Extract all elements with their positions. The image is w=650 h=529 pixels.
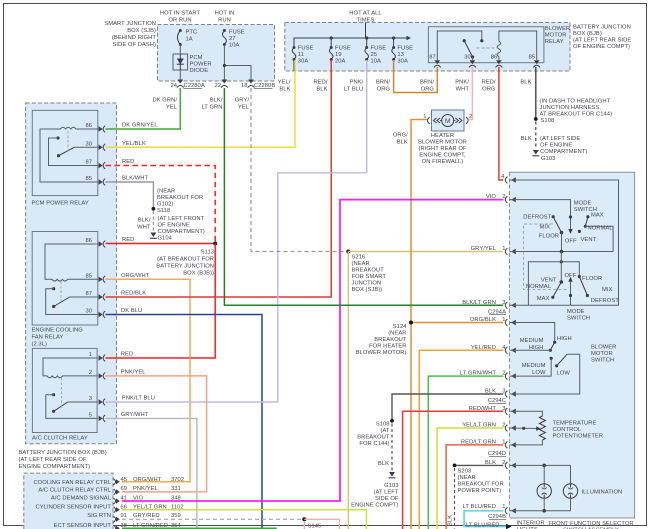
mode switch 2 labels	[526, 273, 619, 322]
svg-text:10A: 10A	[371, 59, 382, 65]
svg-text:S113: S113	[201, 250, 214, 256]
svg-text:MEDIUM: MEDIUM	[522, 363, 546, 369]
svg-text:ENGINE COMPT,: ENGINE COMPT,	[419, 153, 466, 159]
svg-text:FAN RELAY: FAN RELAY	[32, 335, 64, 341]
svg-text:BLK: BLK	[448, 515, 454, 526]
wire BLK/WHT dashed drop to G104	[137, 211, 153, 232]
svg-text:(AT LEFT SIDE: (AT LEFT SIDE	[540, 136, 580, 142]
svg-text:COMPARTMENT): COMPARTMENT)	[158, 229, 205, 235]
circuit breaker PTC 1A	[177, 29, 197, 46]
svg-text:BREAKOUT: BREAKOUT	[352, 268, 385, 274]
svg-text:30: 30	[464, 55, 471, 61]
fuse 19 20A	[329, 46, 350, 72]
svg-text:BATTERY JUNCTION BOX (BJB): BATTERY JUNCTION BOX (BJB)	[19, 450, 107, 456]
svg-text:BREAKOUT FOR: BREAKOUT FOR	[458, 482, 504, 488]
svg-text:3: 3	[502, 389, 505, 395]
svg-text:RUN: RUN	[218, 18, 231, 24]
splice S216	[346, 250, 386, 294]
illumination lamps	[510, 464, 623, 513]
connector pin 22	[214, 80, 227, 90]
svg-text:69: 69	[121, 486, 128, 492]
svg-text:86: 86	[491, 55, 498, 61]
relay A/C clutch relay box	[32, 348, 97, 441]
svg-text:ORG/WHT: ORG/WHT	[133, 477, 162, 483]
relay PCM power relay box	[32, 110, 98, 206]
svg-text:ORG: ORG	[421, 87, 435, 93]
svg-text:GRY/: GRY/	[235, 98, 250, 104]
svg-text:INTERIOR: INTERIOR	[517, 521, 545, 527]
svg-text:BLK/WHT: BLK/WHT	[122, 176, 149, 182]
svg-text:FUSE: FUSE	[397, 46, 413, 52]
wire GRY/RED row 91: PCM to S145	[122, 517, 339, 529]
wire GRY/YEL: S216 to selector pin 1	[348, 251, 503, 253]
svg-text:SIDE OF DASH): SIDE OF DASH)	[113, 42, 157, 48]
svg-text:86: 86	[85, 238, 92, 244]
svg-text:PNK/LT BLU: PNK/LT BLU	[122, 396, 155, 402]
wire LT GRN/WHT: selector pin 2 to bottom	[428, 376, 503, 529]
svg-text:3702: 3702	[171, 477, 184, 483]
wire PNK/LT BLU: fuse 25 to A/C relay pin 3	[106, 60, 367, 402]
svg-text:DK BLU: DK BLU	[121, 308, 142, 314]
svg-text:S118: S118	[157, 208, 170, 214]
svg-text:ECT SENSOR INPUT: ECT SENSOR INPUT	[54, 523, 112, 529]
svg-text:OFF: OFF	[565, 273, 577, 279]
svg-text:BLK: BLK	[397, 140, 408, 146]
svg-text:POWER: POWER	[190, 62, 212, 68]
label SMART JUNCTION BOX	[104, 21, 156, 48]
svg-text:2: 2	[502, 194, 505, 200]
svg-text:POTENTIOMETER: POTENTIOMETER	[553, 433, 604, 439]
relay switch contact (87 side)	[437, 31, 483, 60]
svg-text:41: 41	[121, 495, 128, 501]
svg-text:VENT: VENT	[541, 278, 557, 284]
wire BLK: blower relay pin 85 to S108/G103	[521, 67, 612, 162]
svg-text:PNK/: PNK/	[350, 80, 364, 86]
motor pin 2 connector	[466, 114, 472, 124]
mode switch 1 contacts and arm	[552, 215, 613, 251]
svg-text:AT BREAKOUT FOR C144): AT BREAKOUT FOR C144)	[540, 112, 613, 118]
svg-text:PNK/YEL: PNK/YEL	[133, 486, 159, 492]
svg-text:BLK: BLK	[485, 460, 496, 466]
svg-text:2: 2	[89, 370, 92, 376]
svg-text:BLOWER MOTOR: BLOWER MOTOR	[418, 140, 467, 146]
svg-text:2: 2	[502, 423, 505, 429]
selector pin 1 RED/LT GRN + C294D	[461, 439, 516, 457]
selector pin 2 VIO	[486, 194, 516, 203]
relay pin connectors (bottom edge)	[434, 60, 540, 67]
svg-text:BLOWER: BLOWER	[545, 26, 570, 32]
svg-text:3: 3	[502, 300, 505, 306]
svg-text:30: 30	[85, 309, 92, 315]
svg-text:20A: 20A	[335, 59, 346, 65]
svg-text:BREAKOUT: BREAKOUT	[374, 337, 407, 343]
svg-text:YEL/LT GRN: YEL/LT GRN	[462, 423, 496, 429]
selector pin 3 RED/WHT	[469, 406, 516, 415]
svg-text:G103: G103	[541, 156, 555, 162]
fuse 27 10A	[222, 29, 244, 49]
svg-text:BATTERY JUNCTION: BATTERY JUNCTION	[573, 25, 631, 31]
wire LT BLU/RED: selector pin 1 to interior lights	[464, 511, 545, 529]
svg-text:YEL/: YEL/	[278, 80, 291, 86]
svg-text:331: 331	[171, 486, 181, 492]
wire RED: S113 down to A/C relay pin 1	[106, 244, 216, 359]
svg-text:YEL: YEL	[166, 105, 178, 111]
fuse 11 30A	[292, 46, 313, 72]
svg-text:RED/WHT: RED/WHT	[469, 406, 497, 412]
wire GRY/YEL: SJB pin 18 dashed to S216	[251, 88, 348, 252]
svg-text:NORMAL: NORMAL	[588, 226, 614, 232]
selector pin 1 ORG/BLK	[470, 317, 516, 326]
wire feed bus from pin 4	[510, 180, 619, 305]
relay fan coil 86-85	[45, 244, 98, 281]
svg-text:JUNCTION: JUNCTION	[352, 281, 382, 287]
label BATTERY JUNCTION BOX (top right)	[573, 25, 631, 51]
front function selector switch assembly box	[510, 172, 635, 518]
svg-text:BATTERY JUNCTION: BATTERY JUNCTION	[156, 264, 214, 270]
svg-text:POWER POINT): POWER POINT)	[458, 488, 502, 494]
wire LT GRN/RED row 38	[122, 527, 276, 529]
splice S113	[156, 242, 217, 277]
svg-text:2: 2	[502, 371, 505, 377]
svg-text:(AT BREAKOUT FOR: (AT BREAKOUT FOR	[157, 257, 214, 263]
svg-text:MAX: MAX	[591, 213, 604, 219]
node HOT IN RUN	[215, 11, 235, 24]
selector pin 4 YEL/RED	[471, 345, 516, 354]
svg-text:45: 45	[121, 477, 128, 483]
mode switch 1 wiper feed (VIO)	[510, 200, 573, 234]
selector pin 3 BLK + C294C	[485, 389, 516, 405]
wire RED/LT GRN: selector pin 1 to bottom	[446, 445, 503, 529]
wire BLK/LT GRN inside box (pin 3 bus)	[510, 304, 619, 306]
wire DK GRN/YEL: SJB pin 24 to PCM relay pin 86	[106, 88, 181, 129]
svg-text:BRN/: BRN/	[420, 80, 434, 86]
wire ORG/BLK: motor pin 1 to S124, selector pin 1, and bottom	[393, 120, 504, 529]
relay pin number labels	[429, 55, 535, 61]
svg-text:1: 1	[502, 504, 505, 510]
relay blower motor relay box	[428, 27, 544, 63]
svg-text:85: 85	[529, 55, 536, 61]
motor pin 1 connector	[423, 114, 429, 124]
svg-text:GRY/RED: GRY/RED	[133, 513, 160, 519]
svg-text:25: 25	[371, 52, 378, 58]
motor heater blower motor	[432, 110, 465, 131]
svg-text:HEATER: HEATER	[431, 133, 454, 139]
svg-text:BLK: BLK	[521, 136, 532, 142]
svg-text:ON FIREWALL): ON FIREWALL)	[422, 159, 464, 165]
svg-text:PNK/: PNK/	[455, 80, 469, 86]
svg-text:RED: RED	[122, 237, 134, 243]
svg-text:ILLUMINATION: ILLUMINATION	[582, 490, 623, 496]
svg-text:ENGINE COMPARTMENT): ENGINE COMPARTMENT)	[19, 464, 91, 470]
svg-text:YEL: YEL	[238, 105, 250, 111]
relay A/C pin labels 1 2 3 5	[89, 352, 92, 418]
svg-text:MEDIUM: MEDIUM	[520, 338, 544, 344]
mode switch 1 labels	[523, 201, 613, 245]
connector pin 24 C2280A	[170, 80, 204, 90]
label HEATER BLOWER MOTOR	[418, 133, 467, 165]
svg-text:RED/: RED/	[313, 80, 327, 86]
svg-text:(NEAR: (NEAR	[388, 331, 406, 337]
wire PNK/YEL: A/C relay pin 2 to PCM pin 69	[106, 369, 207, 492]
svg-text:11: 11	[298, 52, 304, 58]
svg-text:5: 5	[89, 412, 92, 418]
svg-text:ORG: ORG	[482, 87, 496, 93]
label BATTERY JUNCTION BOX (left bottom)	[19, 450, 107, 470]
svg-text:MOTOR: MOTOR	[591, 351, 613, 357]
svg-text:19: 19	[335, 52, 342, 58]
svg-text:RELAY: RELAY	[545, 39, 564, 45]
svg-text:DEFROST: DEFROST	[523, 215, 551, 221]
wire RED: fan relay pin 86 to S113	[106, 237, 216, 244]
relay PCM coil 86-85	[40, 127, 98, 182]
svg-text:S203: S203	[458, 469, 472, 475]
svg-text:S124: S124	[393, 324, 407, 330]
svg-text:GRY/WHT: GRY/WHT	[121, 412, 149, 418]
svg-text:BOX (SJB): BOX (SJB)	[127, 28, 156, 34]
selector pin 2 LT GRN/WHT	[460, 371, 516, 380]
svg-text:FLOOR: FLOOR	[582, 276, 602, 282]
svg-text:30: 30	[85, 141, 92, 147]
selector pin 4 (RED/ORG in)	[501, 174, 516, 184]
relay coil (86-85)	[497, 31, 537, 60]
svg-text:BLK: BLK	[485, 389, 496, 395]
svg-text:22: 22	[214, 83, 221, 89]
svg-text:LOW: LOW	[557, 370, 571, 376]
svg-text:LT GRN: LT GRN	[201, 105, 222, 111]
svg-text:S108: S108	[376, 422, 390, 428]
svg-text:COOLING FAN RELAY CTRL: COOLING FAN RELAY CTRL	[33, 480, 111, 486]
svg-text:SIDE OF: SIDE OF	[375, 496, 399, 502]
smart junction box (SJB) dashed box	[158, 25, 275, 82]
wire BLK: selector pin 3 to S108(2)/G103(2)	[351, 394, 503, 509]
relay PCM pin labels 86 30 87 85	[85, 123, 92, 182]
svg-text:ORG/BLK: ORG/BLK	[470, 317, 496, 323]
mode switch linkage dashed	[524, 224, 569, 290]
svg-text:BREAKOUT FOR: BREAKOUT FOR	[157, 195, 203, 201]
wire RED/ORG: blower relay pin 86 to selector pin 4	[499, 67, 503, 180]
svg-text:85: 85	[85, 176, 92, 182]
svg-text:BLK: BLK	[316, 87, 327, 93]
svg-text:BOX (BJB): BOX (BJB)	[573, 31, 602, 37]
svg-text:MIX: MIX	[602, 287, 613, 293]
wire GRY/YEL: S216 branch down to bottom	[347, 252, 349, 529]
wire YEL/BLK: fuse 11 to PCM relay pin 30	[106, 60, 296, 147]
svg-text:ORG/: ORG/	[393, 133, 408, 139]
wire VIO: selector pin 2 to PCM pin 41	[122, 200, 503, 501]
wire BRN/ORG: fuse 13 to blower relay pin 87	[394, 60, 438, 93]
selector pin 1 LT BLU/RED + C294B	[463, 504, 516, 529]
svg-text:13: 13	[397, 52, 404, 58]
svg-text:2: 2	[502, 460, 505, 466]
relay fan pin connectors	[99, 241, 106, 318]
potentiometer temperature control	[510, 411, 604, 445]
svg-text:87: 87	[429, 55, 436, 61]
blower motor switch labels	[520, 336, 617, 376]
svg-text:1: 1	[423, 114, 426, 120]
svg-text:SIG RTN: SIG RTN	[87, 513, 111, 519]
svg-text:(NEAR: (NEAR	[157, 189, 175, 195]
svg-text:VIO: VIO	[133, 495, 144, 501]
wire YEL/RED: selector pin 4 to bottom	[419, 350, 503, 529]
wire diode to pin 24	[179, 70, 181, 80]
svg-text:A/C CLUTCH RELAY: A/C CLUTCH RELAY	[32, 436, 88, 442]
svg-text:BOX (BJB)): BOX (BJB))	[183, 271, 214, 277]
svg-text:BOX (SJB)): BOX (SJB))	[352, 287, 383, 293]
PCM row labels (left)	[33, 480, 111, 529]
svg-text:(NEAR: (NEAR	[458, 475, 476, 481]
svg-text:RED/LT GRN: RED/LT GRN	[461, 439, 496, 445]
svg-text:MIX: MIX	[540, 225, 551, 231]
svg-text:BRN/: BRN/	[376, 80, 390, 86]
wire YEL/LT GRN row 66: PCM to bottom	[122, 510, 366, 529]
svg-text:PCM: PCM	[190, 55, 203, 61]
svg-text:1: 1	[502, 439, 505, 445]
blower motor switch	[510, 323, 580, 395]
svg-text:COMPARTMENT): COMPARTMENT)	[540, 149, 587, 155]
svg-text:SWITCH: SWITCH	[591, 357, 614, 363]
svg-text:MOTOR: MOTOR	[545, 33, 567, 39]
svg-text:FOR HEATER: FOR HEATER	[369, 344, 406, 350]
svg-text:FUSE: FUSE	[229, 30, 245, 36]
selector pin 3 BLK/LT GRN + C294A	[462, 300, 516, 316]
svg-text:(2.3L): (2.3L)	[32, 342, 47, 348]
svg-text:ORG: ORG	[377, 87, 391, 93]
wire DK BLU: fan relay pin 30 down to bottom	[106, 308, 263, 529]
svg-text:A/C DEMAND SIGNAL: A/C DEMAND SIGNAL	[51, 495, 112, 501]
svg-text:FUSE: FUSE	[371, 46, 387, 52]
wire PTC to diode	[179, 45, 181, 55]
svg-text:LT BLU: LT BLU	[344, 87, 363, 93]
svg-text:1: 1	[502, 246, 505, 252]
svg-text:87: 87	[85, 160, 92, 166]
svg-text:TEMPERATURE: TEMPERATURE	[553, 420, 597, 426]
svg-text:FUSE: FUSE	[298, 46, 314, 52]
left battery junction box (BJB) dashed box (relays)	[26, 103, 117, 444]
svg-text:(NEAR: (NEAR	[352, 261, 370, 267]
svg-text:BLK: BLK	[520, 80, 531, 86]
wire BLK/WHT: PCM relay pin 85 to S118/G104	[106, 176, 154, 208]
svg-text:OF ENGINE: OF ENGINE	[158, 222, 190, 228]
ground G104	[150, 216, 205, 242]
svg-text:85: 85	[85, 273, 92, 279]
label DK GRN/YEL (under pin 24)	[152, 98, 177, 111]
relay A/C switch	[46, 378, 98, 418]
svg-text:348: 348	[171, 495, 181, 501]
svg-text:87: 87	[85, 291, 92, 297]
svg-text:FOR SMART: FOR SMART	[352, 274, 387, 280]
svg-text:PCM POWER RELAY: PCM POWER RELAY	[32, 201, 89, 207]
svg-text:VIO: VIO	[486, 194, 497, 200]
svg-text:S145: S145	[308, 524, 322, 529]
svg-text:24: 24	[170, 83, 177, 89]
svg-text:BLK/: BLK/	[210, 98, 223, 104]
svg-text:(IN DASH TO HEADLIGHT: (IN DASH TO HEADLIGHT	[540, 99, 611, 105]
svg-text:(AT: (AT	[380, 428, 389, 434]
svg-text:VENT: VENT	[581, 237, 597, 243]
wire GRY/YEL inside box (pin 1 line)	[510, 250, 614, 254]
svg-text:JUNCTION HARNESS,: JUNCTION HARNESS,	[540, 105, 602, 111]
svg-text:BLK/LT GRN: BLK/LT GRN	[462, 300, 496, 306]
svg-text:SWITCH: SWITCH	[567, 315, 590, 321]
svg-text:G104: G104	[158, 235, 173, 241]
svg-text:(AT LEFT REAR SIDE: (AT LEFT REAR SIDE	[573, 38, 631, 44]
svg-text:DEFROST: DEFROST	[591, 298, 619, 304]
selector pin 2 YEL/LT GRN	[462, 423, 516, 432]
svg-text:M: M	[445, 118, 450, 125]
svg-text:10A: 10A	[229, 43, 240, 49]
fuse 25 10A	[365, 46, 386, 72]
svg-text:HOT IN: HOT IN	[215, 11, 235, 17]
svg-text:RED/: RED/	[481, 80, 495, 86]
svg-text:G103: G103	[384, 483, 398, 489]
svg-text:OF ENGINE: OF ENGINE	[540, 143, 572, 149]
relay fan pin labels 86 85 87 30	[85, 238, 92, 315]
svg-text:NORMAL: NORMAL	[526, 284, 552, 290]
svg-text:MODE: MODE	[567, 309, 585, 315]
label BLOWER MOTOR RELAY	[545, 26, 570, 45]
node HOT IN START OR RUN	[160, 11, 201, 24]
svg-text:DK GRN/: DK GRN/	[152, 98, 177, 104]
svg-text:HOT IN START: HOT IN START	[160, 11, 201, 17]
svg-text:PNK/YEL: PNK/YEL	[121, 369, 147, 375]
svg-text:LOW: LOW	[532, 370, 546, 376]
selector pin 2 BLK	[485, 460, 516, 469]
svg-text:86: 86	[85, 123, 92, 129]
svg-text:HIGH: HIGH	[529, 345, 544, 351]
svg-text:FLOOR: FLOOR	[539, 234, 559, 240]
wire RED/BLK: fuse 19 to fan relay pin 87	[106, 60, 332, 297]
PCM row connectors	[114, 479, 120, 529]
svg-text:GRY/YEL: GRY/YEL	[471, 246, 497, 252]
wire fuse 27 down with branch to pin 18	[223, 45, 251, 81]
selector pin 1 GRY/YEL	[471, 246, 516, 255]
svg-text:WHT: WHT	[137, 225, 151, 231]
svg-text:MAX: MAX	[537, 296, 550, 302]
svg-text:MODE: MODE	[574, 201, 592, 207]
relay engine cooling fan relay box	[32, 232, 98, 348]
svg-text:FOR C144): FOR C144)	[359, 441, 389, 447]
svg-text:(AT LEFT FRONT: (AT LEFT FRONT	[158, 216, 205, 222]
wire PNK/WHT: blower relay pin 30 to motor pin 2	[468, 67, 472, 120]
svg-text:WHT: WHT	[456, 87, 470, 93]
svg-text:91: 91	[121, 513, 128, 519]
svg-text:1: 1	[502, 317, 505, 323]
battery junction box (BJB) top dashed box (fuses + blower motor relay)	[285, 23, 570, 72]
svg-text:LT BLU/RED: LT BLU/RED	[466, 523, 499, 529]
label GRY/YEL (under pin 18)	[235, 98, 250, 111]
relay A/C pin connectors	[99, 355, 106, 422]
svg-text:LT GRN/WHT: LT GRN/WHT	[460, 371, 496, 377]
svg-text:CONTROL: CONTROL	[553, 427, 582, 433]
svg-text:HOT AT ALL: HOT AT ALL	[349, 11, 382, 17]
wire RED/WHT: selector pin 3 to bottom	[403, 411, 504, 529]
svg-text:(AT LEFT: (AT LEFT	[374, 490, 399, 496]
bus feed wire	[294, 23, 411, 47]
svg-text:ORG/WHT: ORG/WHT	[121, 273, 150, 279]
svg-text:(BEHIND RIGHT: (BEHIND RIGHT	[112, 35, 157, 41]
svg-text:(RIGHT REAR OF: (RIGHT REAR OF	[419, 146, 467, 152]
PCM row pin/wire/circuit texts	[121, 477, 185, 529]
relay PCM switch	[49, 131, 98, 166]
svg-text:1A: 1A	[186, 37, 193, 43]
svg-text:PTC: PTC	[186, 30, 198, 36]
wire BLK/LT GRN: SJB pin 22 to selector pin 3	[224, 88, 503, 305]
svg-text:S108: S108	[541, 118, 555, 124]
splice S118	[152, 189, 204, 215]
svg-text:ENGINE COMPT): ENGINE COMPT)	[351, 503, 398, 509]
svg-text:OFF: OFF	[565, 238, 577, 244]
svg-text:LT BLU/RED: LT BLU/RED	[463, 504, 496, 510]
